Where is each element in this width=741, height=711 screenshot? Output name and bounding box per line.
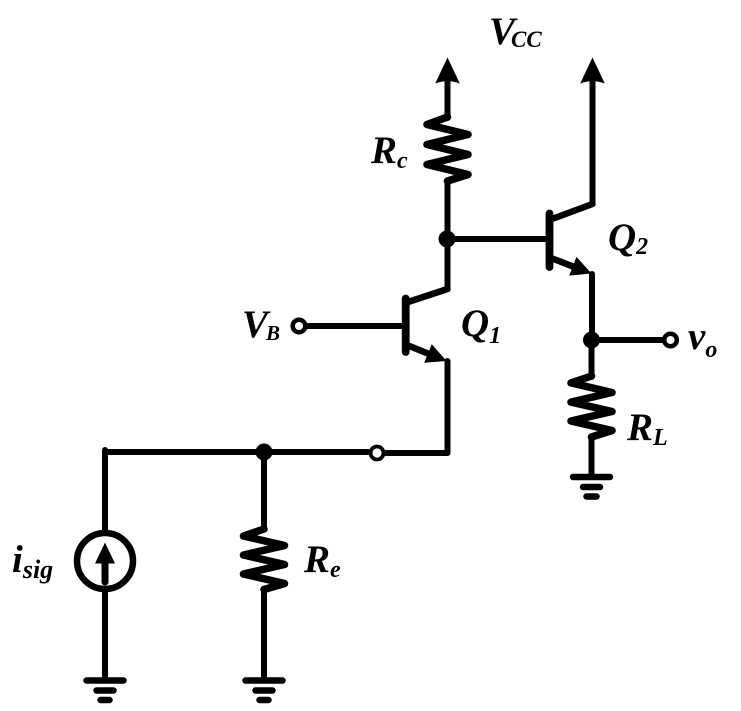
- transistor Q2: [550, 204, 593, 276]
- Q2 emitter arrowhead: [569, 257, 591, 276]
- ground G1: [87, 681, 124, 701]
- wire node B to Q2 base: [447, 236, 546, 242]
- svg-text:vo: vo: [688, 315, 717, 363]
- wire Rc to collector node: [445, 181, 451, 289]
- svg-text:VB: VB: [242, 303, 280, 346]
- wire Q2 emitter down: [589, 274, 595, 342]
- node junction dot C (vo): [583, 332, 600, 349]
- VCC arrowhead left: [435, 58, 460, 84]
- Q2 emitter diagonal: [551, 258, 579, 269]
- wire from node A down to Re: [261, 452, 267, 529]
- svg-text:Rc: Rc: [370, 129, 408, 174]
- wire below current source: [102, 589, 108, 680]
- wire node C down to RL: [589, 340, 595, 377]
- wire below RL: [589, 437, 595, 476]
- wire Q1 base: [307, 323, 404, 329]
- wire left branch down to current source: [102, 450, 108, 531]
- Q2 collector diagonal: [552, 204, 593, 219]
- Q1 emitter arrowhead: [424, 344, 446, 363]
- node junction dot A: [256, 444, 273, 461]
- ground G2: [246, 681, 283, 701]
- terminal open circle VB: [293, 320, 306, 333]
- wire bottom horizontal left segment: [105, 449, 368, 455]
- resistor Re zigzag: [244, 529, 285, 590]
- VCC arrow left shaft: [445, 78, 451, 118]
- terminal open circle vo: [664, 334, 677, 347]
- wire node C to vo terminal: [592, 337, 663, 343]
- ground G3: [573, 477, 610, 497]
- wire bottom horizontal right segment: [386, 450, 447, 456]
- svg-text:isig: isig: [12, 538, 53, 584]
- transistor Q1: [406, 289, 448, 363]
- Q2 base bar: [546, 214, 554, 268]
- Q1 emitter diagonal: [407, 345, 434, 356]
- svg-text:Q1: Q1: [461, 302, 501, 349]
- VCC arrowhead right: [580, 58, 605, 84]
- current source arrow shaft: [102, 560, 109, 582]
- svg-text:RL: RL: [626, 406, 668, 451]
- Q1 base bar: [402, 299, 410, 353]
- VCC arrow right shaft: [590, 78, 596, 204]
- current source I1 circle: [77, 533, 133, 589]
- current source arrowhead: [95, 543, 115, 564]
- Q1 collector diagonal: [408, 289, 448, 302]
- wire Q1 emitter down: [445, 361, 451, 453]
- svg-text:Q2: Q2: [608, 216, 648, 260]
- wire below Re: [261, 590, 267, 680]
- resistor RL zigzag: [571, 376, 612, 437]
- svg-text:Re: Re: [303, 538, 341, 583]
- resistor Rc zigzag: [427, 117, 468, 181]
- svg-text:VCC: VCC: [489, 10, 542, 53]
- node open circle on emitter wire: [371, 447, 384, 460]
- node junction dot B (Q1 collector): [439, 231, 456, 248]
